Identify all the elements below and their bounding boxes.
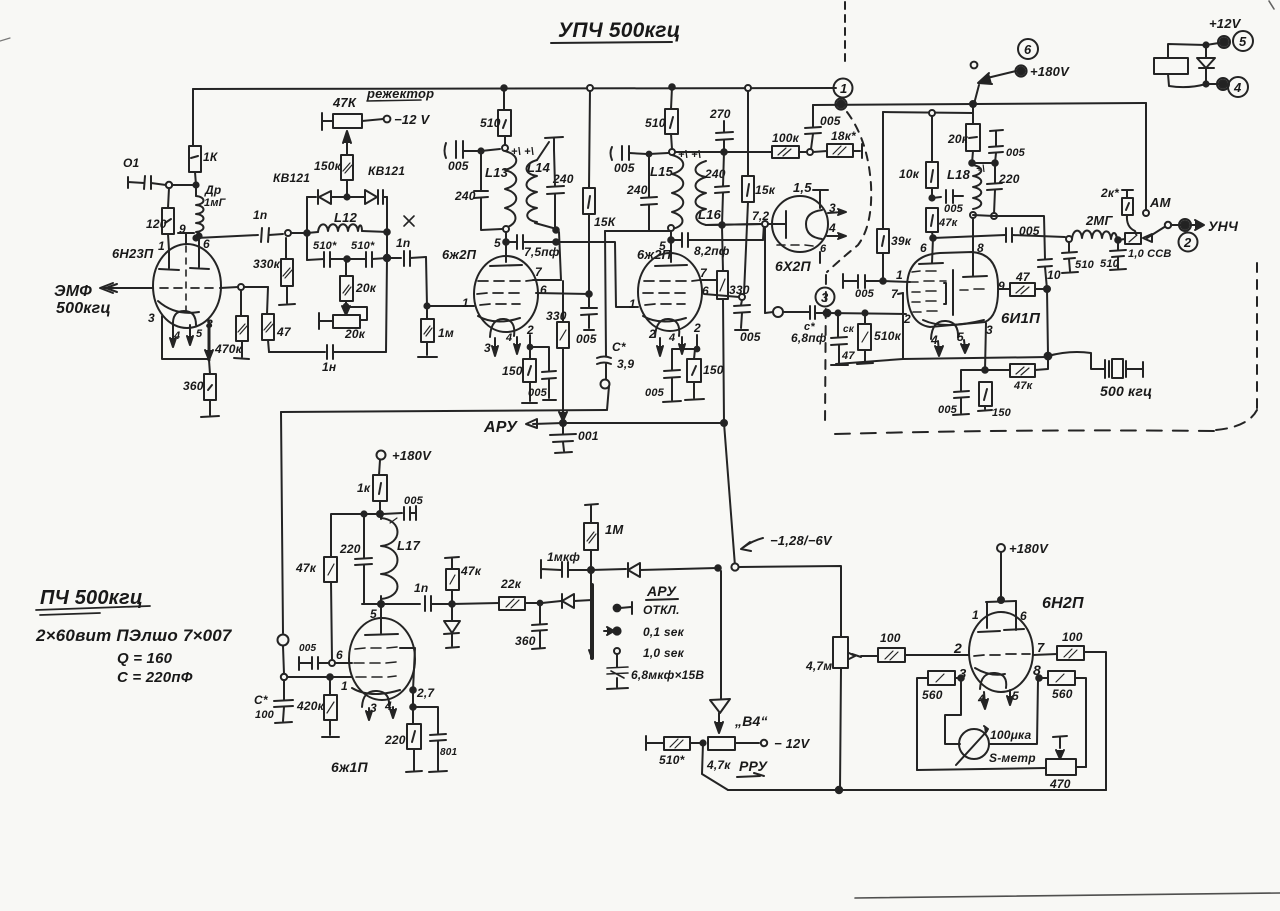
wire: pin2 output to ЭМФ arrow	[54, 283, 153, 317]
switch АРУ (wiper)	[589, 570, 592, 658]
capacitor ск 47	[831, 310, 855, 365]
svg-text:2,7: 2,7	[416, 686, 435, 700]
svg-text:18к*: 18к*	[831, 129, 857, 143]
resistor 10к	[899, 116, 938, 198]
svg-text:470к: 470к	[214, 342, 243, 356]
dashed: corner up right boundary	[1216, 410, 1257, 430]
wire: L16 bottom row 7,2 line	[706, 224, 763, 225]
svg-text:„В4“: „В4“	[734, 713, 768, 729]
svg-text:150: 150	[703, 363, 724, 377]
resistor 1К	[189, 146, 219, 185]
resistor 15к (screen tube2)	[742, 90, 776, 294]
svg-text:15к: 15к	[755, 183, 776, 197]
quartz 500 кгц	[1048, 352, 1152, 399]
wire: AM line down right edge	[1145, 103, 1147, 210]
svg-text:20к: 20к	[947, 132, 969, 146]
wire: АРУ bus to tube2 330	[563, 422, 724, 424]
inductor Др 1мГ (choke)	[196, 183, 227, 238]
resistor 100 (grid stopper)	[849, 631, 969, 662]
svg-text:1n: 1n	[414, 581, 428, 595]
label АРУ (switch)	[646, 583, 678, 600]
capacitor C* 100	[254, 680, 293, 723]
capacitor 005 (osc output coupling)	[933, 224, 1065, 242]
svg-text:005: 005	[614, 161, 635, 175]
svg-text:6И1П: 6И1П	[1001, 310, 1041, 327]
capacitor 6,8мкф×15В	[607, 654, 704, 689]
wire: heterodyne inj line y=604	[362, 603, 381, 605]
node: het supply junction	[377, 511, 383, 517]
capacitor 005 (cathode tube1)	[528, 347, 556, 400]
svg-text:1: 1	[972, 608, 979, 622]
svg-text:5: 5	[196, 328, 203, 340]
svg-text:005: 005	[645, 387, 665, 399]
capacitor 801 (het cathode)	[413, 707, 458, 772]
terminal +180V (6Н2П)	[997, 541, 1049, 600]
diode (АРУ to wiper)	[542, 594, 592, 608]
svg-text:7,2: 7,2	[752, 209, 769, 223]
node: open circle after 100к	[807, 149, 813, 155]
node: tank right mid	[384, 229, 390, 235]
tube 6И1П envelope	[907, 252, 1041, 327]
node: 240 bottom dot	[719, 222, 725, 228]
svg-text:510: 510	[480, 116, 501, 130]
svg-text:15К: 15К	[594, 215, 617, 229]
svg-text:005: 005	[855, 288, 875, 300]
capacitor 10	[1038, 259, 1061, 289]
wire: pin7 anode out	[533, 279, 561, 281]
svg-text:510: 510	[1075, 259, 1095, 271]
svg-text:6: 6	[820, 243, 827, 255]
svg-text:8,2пф: 8,2пф	[694, 244, 730, 258]
svg-text:L17: L17	[397, 538, 421, 553]
capacitor 270	[709, 107, 733, 152]
wire: y242 line to tube2 grid	[556, 242, 638, 307]
wire: anode riser tube1 pin7	[559, 232, 561, 280]
node: bus open circle 15к-2	[745, 85, 751, 91]
connector circle 1	[834, 79, 853, 98]
svg-text:4: 4	[505, 332, 512, 344]
wire: supply bus y=105	[813, 103, 1146, 105]
svg-text:47к: 47к	[938, 217, 959, 229]
svg-text:005: 005	[820, 114, 841, 128]
svg-text:510к: 510к	[874, 329, 902, 343]
svg-text:6Х2П: 6Х2П	[775, 258, 812, 274]
diode КВ121 right (varicap)	[347, 190, 387, 204]
node: pin8 junction	[1036, 675, 1042, 681]
capacitor 005 (screen bypass tube2)	[734, 300, 761, 344]
svg-text:510*: 510*	[313, 240, 337, 252]
capacitor 240 (tank2 right)	[704, 152, 729, 225]
svg-text:9: 9	[998, 279, 1005, 293]
wire: grid line y≈236 to 1n cap	[196, 235, 258, 238]
node: AM open circle	[1143, 210, 1149, 216]
wire: bottom rail y=790	[728, 789, 1106, 791]
wire: tank2 bottom-left to C*3,9	[605, 230, 649, 232]
wire: pin6 into tube	[932, 238, 933, 263]
svg-text:5: 5	[1239, 34, 1247, 49]
node: tank2 top-left corner	[647, 152, 652, 157]
tube 6Ж2П-2 internals	[629, 265, 709, 356]
svg-text:005: 005	[740, 330, 761, 344]
svg-text:2×60вит ПЭлшо 7×007: 2×60вит ПЭлшо 7×007	[35, 626, 233, 645]
diode В4	[710, 571, 768, 733]
svg-text:330: 330	[729, 283, 750, 297]
switch contact ОТКЛ	[614, 602, 680, 617]
inductor L17	[381, 517, 421, 604]
svg-text:С*: С*	[254, 693, 269, 707]
dashed: horizontal boundary y=433	[835, 430, 1215, 434]
node: 005/220 junction	[992, 160, 998, 166]
resistor 510 (tank1 feed)	[480, 88, 511, 145]
relay box +12V	[1154, 16, 1242, 87]
wire: pin7 tube2 to 330	[702, 279, 717, 281]
resistor 330к	[253, 238, 295, 305]
svg-text:ЭМФ: ЭМФ	[54, 283, 92, 300]
node: open circle pin7	[238, 284, 244, 290]
svg-text:6: 6	[702, 284, 709, 298]
svg-text:005: 005	[448, 159, 469, 173]
node: tank bottom mid	[344, 256, 350, 262]
svg-text:6: 6	[920, 241, 927, 255]
svg-text:1: 1	[462, 296, 469, 310]
resistor 2к*	[1100, 186, 1136, 234]
node: pin3 bottom junction	[982, 367, 988, 373]
svg-text:005: 005	[938, 404, 958, 416]
svg-text:220: 220	[384, 733, 406, 747]
corner mark top right	[1269, 1, 1274, 9]
switch contact 0,1	[604, 625, 685, 639]
svg-text:РРУ: РРУ	[739, 758, 769, 774]
capacitor 510* (tank bottom right)	[347, 240, 387, 267]
svg-text:47: 47	[276, 325, 292, 339]
svg-text:4,7к: 4,7к	[706, 758, 731, 772]
node: screen junction	[586, 291, 592, 297]
svg-text:1n: 1n	[396, 236, 410, 250]
svg-text:005: 005	[944, 203, 964, 215]
connector circle 3	[816, 288, 835, 307]
capacitor О1	[123, 156, 193, 189]
svg-text:801: 801	[440, 747, 458, 758]
node: neutralizing tap	[553, 239, 559, 245]
svg-text:120: 120	[146, 217, 167, 231]
capacitor 005 (osc top)	[989, 130, 1026, 163]
wire: bus corner down to 1k	[192, 89, 194, 146]
capacitor 005 (screen bypass tube1)	[576, 294, 597, 346]
wire: pin7 line right	[220, 287, 238, 288]
wire: into grid bar	[768, 223, 786, 225]
wire: L18 bottom to pin8	[972, 218, 974, 276]
node 9 top junction	[196, 233, 201, 238]
svg-text:УНЧ: УНЧ	[1208, 218, 1239, 234]
svg-text:2: 2	[648, 327, 656, 341]
inductor L18	[947, 165, 981, 209]
svg-text:560: 560	[922, 688, 943, 702]
diode КВ121 left (varicap)	[307, 190, 347, 204]
terminal +180V (heterodyne)	[377, 448, 433, 475]
node: open circle 2МГ left	[1066, 236, 1072, 242]
node: 47/10 junction	[1044, 286, 1050, 292]
svg-text:АМ: АМ	[1149, 195, 1172, 210]
svg-text:C*: C*	[612, 340, 627, 354]
svg-text:1: 1	[341, 679, 348, 693]
wire: top supply bus y=88	[193, 88, 836, 89]
wire: corner to L15 top	[649, 153, 668, 154]
resistor 15К (screen tube1)	[583, 89, 617, 294]
svg-text:−1,28/−6V: −1,28/−6V	[770, 533, 833, 548]
potentiometer 4,7к (РРУ)	[706, 736, 810, 772]
wire: meter to pin8	[989, 680, 1038, 744]
svg-text:500кгц: 500кгц	[56, 300, 111, 317]
labels ПЧ 500кгц block	[35, 587, 233, 686]
svg-text:20к: 20к	[355, 281, 377, 295]
svg-text:ОТКЛ.: ОТКЛ.	[643, 603, 680, 617]
capacitor 005 (pin3)	[938, 370, 985, 416]
node: open circle grid6 het	[329, 660, 335, 666]
tube 6Ж2П-1 internals	[462, 265, 547, 356]
svg-text:150: 150	[502, 364, 523, 378]
svg-text:1к: 1к	[357, 481, 371, 495]
svg-text:500 кгц: 500 кгц	[1100, 383, 1152, 399]
svg-text:510: 510	[1100, 258, 1120, 270]
resistor 470 (trimmer)	[917, 736, 1086, 791]
svg-text:47: 47	[841, 350, 855, 362]
resistor 18к*	[813, 129, 862, 158]
resistor 100 (pin7)	[1033, 630, 1106, 790]
resistor 47к (osc)	[985, 357, 1048, 392]
svg-text:100: 100	[1062, 630, 1083, 644]
resistor 120	[146, 188, 174, 250]
svg-text:150к: 150к	[314, 159, 342, 173]
svg-text:КВ121: КВ121	[273, 171, 310, 185]
svg-text:22к: 22к	[500, 577, 522, 591]
node: L15 top open	[669, 149, 675, 155]
svg-text:+12V: +12V	[1209, 16, 1242, 31]
tube 6Х2П internals	[777, 210, 827, 263]
dashed: curve from 1 to detector boundary	[827, 112, 871, 272]
svg-text:150: 150	[992, 407, 1012, 419]
wire: right vertical to bottom junction	[1047, 289, 1048, 355]
label pin 4 + arrow	[827, 221, 846, 239]
label -1,28/-6V with arrow	[741, 533, 833, 551]
capacitor 005 (het grid)	[299, 643, 352, 670]
resistor 47к (osc grid leak)	[926, 208, 959, 238]
tube 6Ж2П-2 envelope	[638, 253, 702, 331]
svg-text:3: 3	[484, 341, 491, 355]
svg-text:−12 V: −12 V	[394, 112, 430, 127]
svg-text:1н: 1н	[322, 360, 337, 374]
node: pin1 junction	[880, 278, 886, 284]
svg-text:10: 10	[1047, 268, 1061, 282]
svg-text:6ж2П: 6ж2П	[442, 247, 477, 262]
meter 100μка S-метр	[956, 726, 1036, 765]
tube 6Ж2П-1 envelope	[474, 256, 538, 332]
wire: detector output y=313	[765, 312, 773, 313]
wire: y112 line	[883, 112, 973, 113]
resistor 150к	[314, 155, 353, 197]
wire: 8,2пф riser to grid 6Х2П line	[763, 224, 764, 240]
node: АРУ right end	[721, 420, 727, 426]
svg-text:510: 510	[645, 116, 666, 130]
node: 1k bottom junction	[193, 182, 198, 187]
svg-text:3: 3	[148, 311, 155, 325]
svg-text:2к*: 2к*	[1100, 186, 1120, 200]
svg-text:5: 5	[957, 330, 964, 344]
resistor 1к (het)	[357, 475, 387, 513]
svg-text:001: 001	[578, 429, 599, 443]
wire: L13 bottom to pin5	[505, 232, 507, 262]
node: open circle -1,28	[731, 563, 738, 570]
wire: tank box right edge	[386, 197, 388, 258]
node: АРУ detector junction	[588, 567, 594, 573]
svg-text:7: 7	[1037, 640, 1045, 655]
resistor 20к (screen dropper)	[340, 259, 377, 301]
svg-text:7: 7	[700, 266, 708, 280]
svg-text:С = 220пФ: С = 220пФ	[117, 669, 193, 686]
svg-text:1n: 1n	[253, 208, 267, 222]
capacitor 1n (series to grid of 6Ж2П-1)	[387, 236, 426, 266]
tube 6Н2П envelope	[969, 612, 1033, 692]
svg-text:360: 360	[515, 634, 536, 648]
wire: pin1 into tube	[883, 281, 910, 282]
node: 360 junction	[538, 601, 543, 606]
resistor 150 (osc cathode)	[978, 382, 1012, 419]
resistor 220 (het cathode)	[384, 707, 422, 772]
svg-text:005: 005	[1006, 147, 1026, 159]
svg-text:АРУ: АРУ	[646, 583, 677, 599]
tube 6Н23П envelope	[112, 244, 221, 328]
resistor 22к	[452, 577, 538, 610]
svg-text:1,5: 1,5	[793, 180, 812, 195]
tube 6Н23П internals	[148, 222, 213, 347]
resistor 470к	[214, 290, 249, 359]
node: diode mid junction	[344, 194, 349, 199]
wire: to 47к branch	[331, 514, 380, 557]
capacitor 005 (input tank1)	[445, 141, 479, 173]
svg-text:6ж2П: 6ж2П	[637, 247, 672, 262]
stray scan line bottom right	[855, 893, 1280, 898]
node: L13 bottom open	[503, 226, 509, 232]
svg-text:47К: 47К	[332, 95, 357, 110]
svg-text:560: 560	[1052, 687, 1073, 701]
node: L15 bottom open	[668, 225, 674, 231]
svg-text:005: 005	[528, 387, 548, 399]
resistor 47	[262, 287, 292, 352]
wire: into pin 1 tube1	[427, 305, 474, 307]
svg-text:005: 005	[404, 495, 424, 507]
wire: pin1 line het	[287, 676, 352, 678]
switch box ССВ	[1118, 233, 1172, 260]
wire: tank2 bottom	[649, 230, 671, 232]
svg-text:3: 3	[986, 323, 993, 337]
capacitor 1,5 (top plate feed)	[793, 180, 828, 208]
svg-text:6Н23П: 6Н23П	[112, 246, 154, 261]
title УПЧ 500кгц	[551, 19, 680, 43]
connector circle 6	[1018, 39, 1038, 59]
svg-text:220: 220	[998, 172, 1020, 186]
svg-text:ск: ск	[843, 324, 855, 335]
resistor 100к	[772, 131, 806, 158]
capacitor 005 (osc grid)	[932, 190, 964, 215]
wire: het bottom row	[364, 603, 381, 605]
wire: pin6 tube2 out	[704, 294, 739, 297]
capacitor 1n (het out)	[381, 581, 449, 611]
svg-text:6ж1П: 6ж1П	[331, 759, 368, 775]
node: bottom-right junction blob	[1045, 353, 1052, 360]
node: L13 top open	[502, 145, 508, 151]
node: 2МГ right junction	[1115, 237, 1121, 243]
wiper arrow into 20к pot	[342, 301, 350, 315]
node: screen open circle tube2	[739, 294, 745, 300]
node: open circle 7,2	[762, 221, 768, 227]
capacitor 005 (cathode tube2)	[645, 349, 697, 402]
label РРУ	[737, 758, 769, 777]
wire: pin3 to meter	[945, 678, 961, 744]
label pin 3 + arrow	[828, 201, 846, 215]
wire: osc top row to right	[973, 215, 1045, 259]
svg-text:4: 4	[668, 332, 675, 344]
svg-text:1: 1	[840, 81, 847, 96]
wire: РРУ wiper to bottom rail	[702, 743, 728, 790]
svg-text:6: 6	[1024, 42, 1032, 57]
capacitor 240 (tank2 left)	[626, 154, 657, 231]
node: pin6 osc junction	[930, 235, 936, 241]
svg-text:L18: L18	[947, 167, 971, 182]
svg-text:режектор: режектор	[366, 86, 434, 101]
svg-text:1: 1	[896, 268, 903, 282]
resistor 39к	[877, 112, 912, 281]
svg-text:47к: 47к	[460, 564, 482, 578]
svg-text:005: 005	[299, 643, 317, 654]
switch lever to УНЧ	[1143, 218, 1239, 242]
wire: 20к to 220 leg	[972, 162, 995, 164]
resistor 4,7М	[805, 637, 848, 790]
node: 220 bottom open	[991, 213, 997, 219]
wire: L14 bottom to node	[535, 223, 553, 228]
svg-text:240: 240	[626, 183, 648, 197]
resistor 47к (het feed)	[295, 557, 337, 660]
capacitor 1мкф	[541, 550, 588, 578]
resistor 47к (АРУ divider)	[445, 557, 482, 604]
svg-text:ПЧ 500кгц: ПЧ 500кгц	[40, 587, 143, 609]
capacitor 360	[515, 603, 547, 649]
svg-text:2: 2	[693, 321, 701, 335]
svg-text:7: 7	[535, 265, 543, 279]
svg-text:L12: L12	[334, 210, 358, 225]
stray mark top left	[0, 38, 10, 41]
resistor 510 (tank2 feed)	[645, 87, 678, 149]
switch contact 1,0	[614, 646, 685, 660]
node: tank1 bottom-right	[553, 227, 559, 233]
svg-text:47к: 47к	[1013, 380, 1034, 392]
svg-text:+180V: +180V	[1030, 64, 1070, 79]
svg-text:− 12V: − 12V	[774, 736, 810, 751]
wire: riser to tank right edge	[386, 258, 387, 352]
terminal circle (ЭМФ link)	[278, 635, 289, 675]
wire: to 6И1П pin2	[827, 313, 906, 314]
capacitor 8,2пф	[671, 233, 763, 258]
potentiometer 20к	[319, 307, 367, 341]
node: tank1 top-left junction	[478, 148, 483, 153]
resistor 20к (osc plate)	[947, 104, 980, 163]
inductor 2МГ	[1072, 213, 1117, 239]
dashed: vertical boundary x=825	[825, 275, 826, 425]
capacitor 220 (het tank)	[339, 514, 372, 604]
svg-text:6Н2П: 6Н2П	[1042, 595, 1084, 612]
node: arrowhead into 360	[205, 350, 213, 360]
capacitor 005 (input tank2)	[611, 146, 648, 175]
node: tank input dot	[304, 230, 310, 236]
tube 6Ж1П internals	[352, 604, 415, 720]
